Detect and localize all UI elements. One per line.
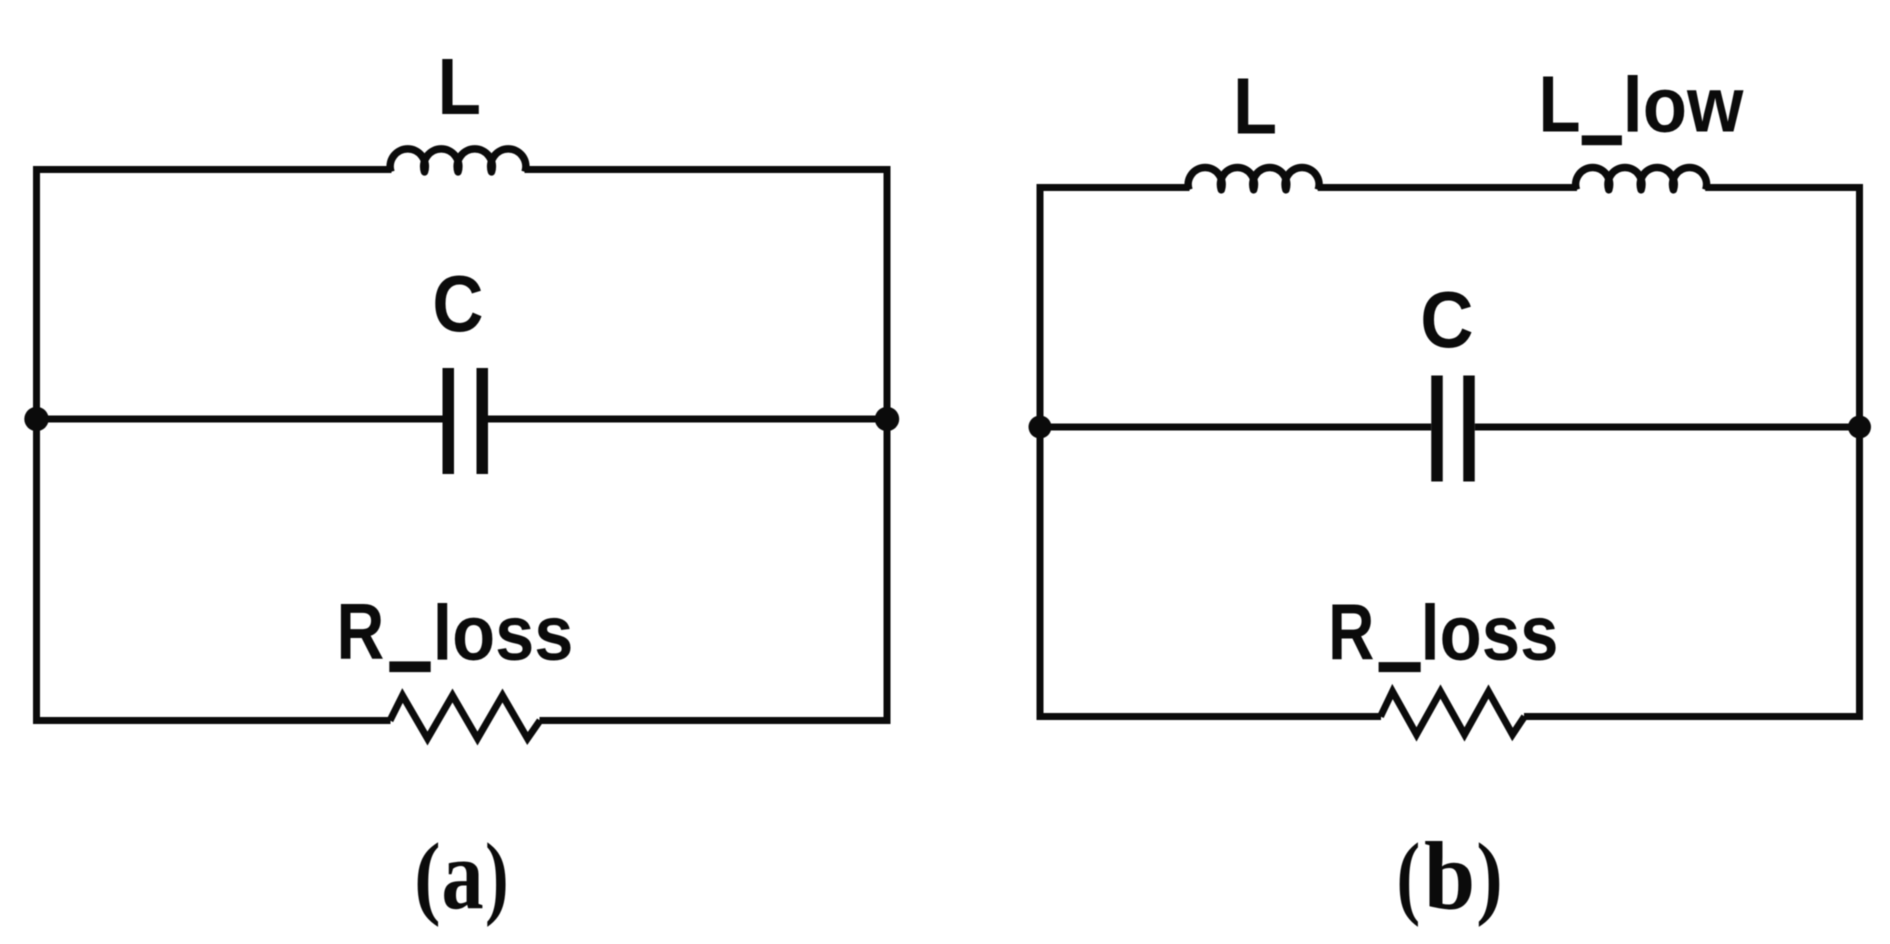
label R_loss (circuit a): underscore [389,661,430,672]
svg-text:C: C [432,259,483,348]
inductor L (circuit a) [390,149,526,172]
wire: circuit (b) bottom left segment [1040,713,1381,720]
resistor R_loss (circuit b) [1381,692,1525,735]
svg-text:R: R [337,587,385,676]
inductor L (circuit b) [1188,168,1319,190]
node: circuit (b) right junction [1848,416,1871,439]
node: circuit (b) left junction [1029,416,1052,439]
wire: circuit (b) middle left segment [1040,424,1431,431]
wire: circuit (b) top segment 1 [1040,184,1190,191]
capacitor C (circuit a) right plate [477,368,489,474]
wire: circuit (a) bottom right segment [540,717,888,724]
svg-text:R: R [1328,588,1374,677]
wire: circuit (b) right vertical [1856,184,1863,720]
wire: circuit (b) top segment 2 [1318,184,1577,191]
svg-text:C: C [1420,275,1473,364]
node: circuit (a) left junction [24,407,48,431]
svg-text:(: ( [1396,825,1420,928]
label L_low (circuit b): underscore [1582,135,1622,145]
svg-text:L: L [438,42,482,131]
svg-text:b: b [1424,823,1475,930]
label R_loss (circuit b): underscore [1379,662,1421,672]
wire: circuit (a) middle left segment [37,416,443,423]
wire: circuit (b) left vertical [1037,184,1044,720]
resistor R_loss (circuit a) [390,696,540,739]
svg-text:L: L [1539,60,1581,149]
svg-text:loss: loss [1421,589,1559,677]
wire: circuit (a) top right segment [525,166,888,173]
wire: circuit (b) top segment 3 [1705,184,1859,191]
wire: circuit (a) middle right segment [488,416,887,423]
wire: circuit (a) right vertical [884,166,891,724]
node: circuit (a) right junction [875,407,899,431]
svg-text:low: low [1623,61,1744,149]
capacitor C (circuit b) left plate [1431,376,1443,482]
svg-text:): ) [1476,825,1503,928]
svg-text:loss: loss [433,589,574,677]
svg-text:L: L [1233,62,1277,151]
svg-text:(: ( [414,825,441,928]
wire: circuit (a) bottom left segment [37,717,391,724]
capacitor C (circuit a) left plate [443,368,455,474]
capacitor C (circuit b) right plate [1463,376,1475,482]
wire: circuit (a) left vertical [33,166,40,724]
wire: circuit (a) top left segment [37,166,392,173]
wire: circuit (b) middle right segment [1475,424,1860,431]
svg-text:): ) [485,825,509,928]
svg-text:a: a [441,820,483,931]
inductor L_low (circuit b) [1576,168,1707,190]
wire: circuit (b) bottom right segment [1524,713,1860,720]
